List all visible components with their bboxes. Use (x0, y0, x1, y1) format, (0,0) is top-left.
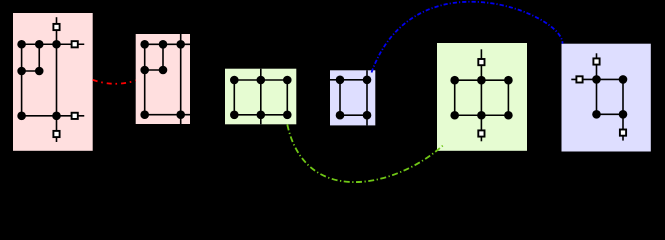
node G5 v2 (477, 76, 486, 85)
wire G4 left vertical (339, 80, 341, 115)
node G2 v3 (176, 40, 185, 49)
wire G1 mid vertical (38, 44, 40, 71)
wire G5 right vertical (507, 80, 509, 115)
wire G4 right vertical (366, 70, 368, 125)
terminal G1 t1 (53, 24, 59, 30)
wire G5 middle vertical (480, 49, 482, 141)
wire G2 bottom row (145, 114, 190, 116)
box G4 (lavender) (330, 70, 375, 125)
terminal G6 t2 (576, 76, 582, 82)
node G2 v1 (140, 40, 149, 49)
terminal G5 t1 (478, 59, 484, 65)
wire G2 mid horizontal (145, 69, 163, 71)
node G1 v6 (17, 112, 26, 121)
node G2 v2 (159, 40, 168, 49)
node G1 v7 (52, 112, 61, 121)
wire G6 top row (597, 78, 624, 80)
wire G1 mid horizontal (22, 70, 40, 72)
wire G5 bottom row (455, 114, 509, 116)
wire G6 bottom terminal stub (622, 114, 624, 140)
node G3 v4 (230, 111, 239, 120)
wire G4 left stub (330, 79, 340, 81)
node G1 v2 (35, 40, 44, 49)
node G6 v2 (619, 75, 628, 84)
wire G1 left vertical (21, 44, 23, 116)
terminal G5 t2 (478, 130, 484, 136)
wire G6 left stub (571, 78, 596, 80)
wire G6 bottom row (597, 113, 624, 115)
terminal G1 t2 (72, 41, 78, 47)
terminal G1 t3 (72, 113, 78, 119)
wire G1 long vertical (56, 17, 58, 142)
wire G6 left vertical (596, 79, 598, 114)
node G5 v1 (450, 76, 459, 85)
curve blue G4-G6 (372, 2, 563, 73)
box G6 (lavender) (562, 44, 651, 152)
node G1 v3 (52, 40, 61, 49)
wire G4 top row (340, 79, 367, 81)
wire G3 left vertical (233, 80, 235, 115)
node G3 v5 (257, 111, 266, 120)
node G3 v3 (283, 76, 292, 85)
node G2 v5 (159, 66, 168, 75)
box G3 (green) (225, 69, 296, 125)
wire G3 top row (234, 79, 287, 81)
node G5 v3 (504, 76, 513, 85)
node G6 v4 (619, 110, 628, 119)
wire G5 left vertical (454, 80, 456, 115)
node G3 v6 (283, 111, 292, 120)
node G1 v4 (17, 67, 26, 76)
node G2 v7 (176, 110, 185, 119)
wire G5 top row (455, 79, 509, 81)
box G5 (green) (437, 43, 527, 151)
wire G3 middle vertical (260, 69, 262, 125)
node G2 v6 (140, 110, 149, 119)
wire G2 top row (145, 43, 190, 45)
wire G1 top row (22, 43, 85, 45)
node G4 v3 (336, 111, 345, 120)
node G3 v2 (257, 76, 266, 85)
node G5 v4 (450, 111, 459, 120)
terminal G6 t3 (620, 130, 626, 136)
curve green G3-G5 (287, 125, 443, 183)
node G4 v4 (363, 111, 372, 120)
wire G6 right vertical (622, 79, 624, 114)
wire G3 bottom row (234, 114, 287, 116)
node G5 v5 (477, 111, 486, 120)
node G3 v1 (230, 76, 239, 85)
wire G2 mid vertical (162, 44, 164, 70)
node G6 v3 (592, 110, 601, 119)
box G1 (pink) (13, 13, 93, 151)
node G1 v1 (17, 40, 26, 49)
wire G4 bottom row (340, 114, 367, 116)
node G6 v1 (592, 75, 601, 84)
node G4 v2 (363, 76, 372, 85)
box G2 (pink) (136, 34, 190, 124)
wire G1 bottom row (22, 115, 85, 117)
wire G2 long vertical (180, 34, 182, 124)
node G4 v1 (336, 76, 345, 85)
curve red G1-G2 (93, 80, 136, 84)
node G1 v5 (35, 67, 44, 76)
node G5 v6 (504, 111, 513, 120)
terminal G1 t4 (53, 131, 59, 137)
wire G2 left vertical (144, 44, 146, 114)
node G2 v4 (140, 66, 149, 75)
wire G6 top stub (596, 53, 598, 79)
terminal G6 t1 (593, 58, 599, 64)
wire G3 right vertical (286, 80, 288, 115)
